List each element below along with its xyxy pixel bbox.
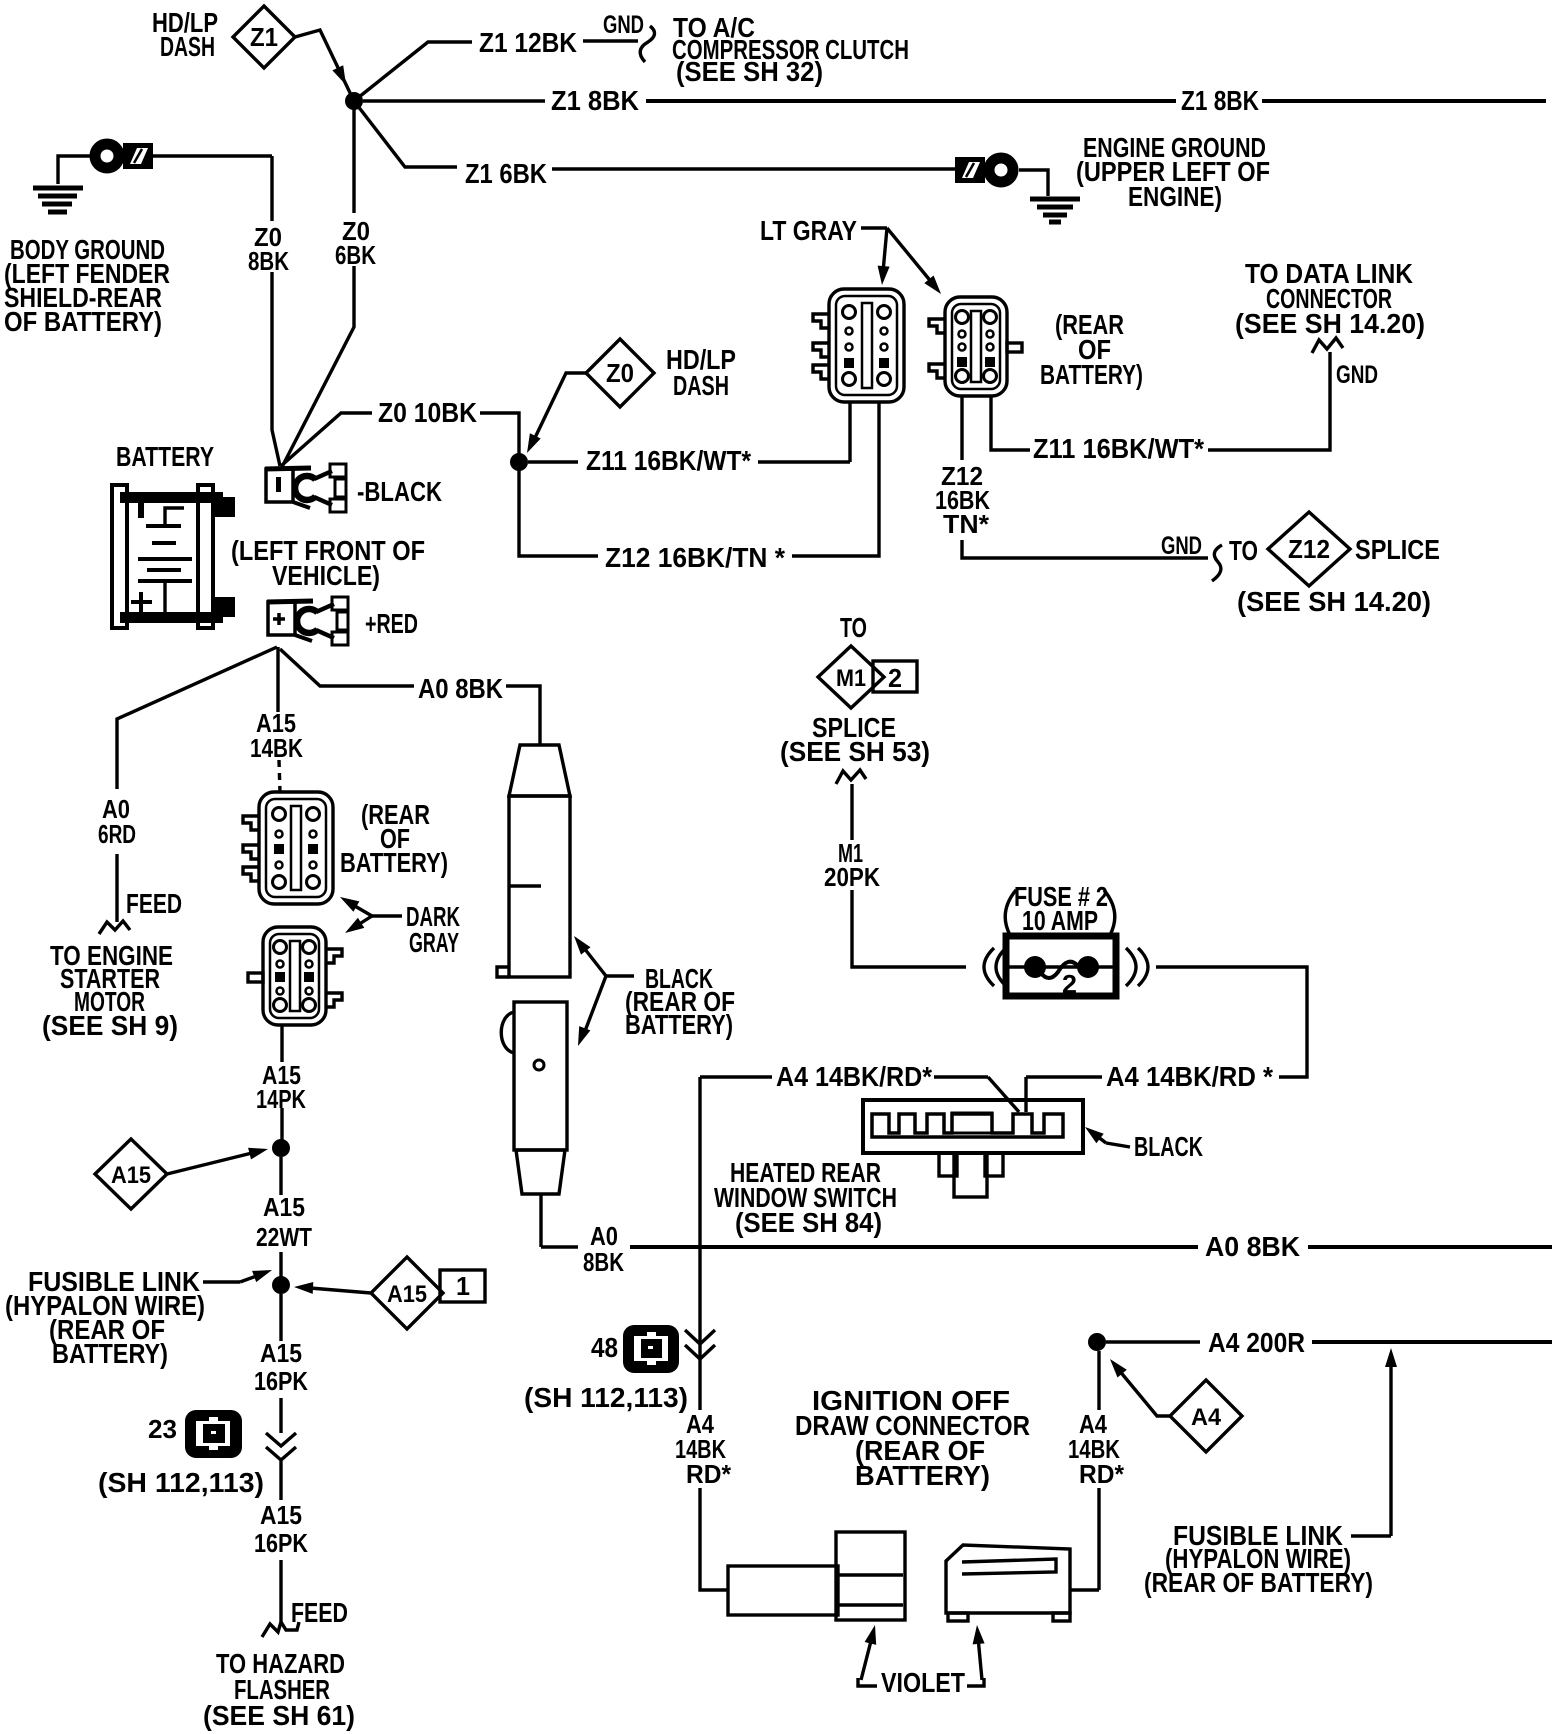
wire A0 8BK (long horizontal) (541, 1245, 1552, 1248)
wire fusible link riser (A4 200R) (1351, 1348, 1397, 1536)
wire A15 diamond arrow to node (167, 1148, 268, 1174)
svg-text:VIOLET: VIOLET (881, 1667, 965, 1698)
svg-text:BATTERY): BATTERY) (1040, 359, 1143, 390)
label DARK GRAY (406, 901, 460, 958)
svg-text:DASH: DASH (160, 31, 215, 62)
battery symbol (112, 485, 235, 628)
label BLACK (switch) with arrow (1085, 1127, 1203, 1162)
node junction Z1 (345, 92, 363, 110)
bracket squiggle (Z12 splice) (1212, 545, 1222, 581)
label BLACK (REAR OF BATTERY) with arrows (574, 936, 735, 1046)
wire Z1 6BK to engine ground (354, 101, 957, 169)
wire Z1 8BK (junction to right edge) (363, 99, 1546, 102)
svg-text:A4 14BK/RD *: A4 14BK/RD * (1106, 1061, 1273, 1092)
svg-text:14PK: 14PK (256, 1084, 306, 1114)
fusible link cartridge (lower, black) (501, 1002, 567, 1247)
svg-text:2: 2 (888, 663, 902, 693)
wire A15 14BK (+RED to connector C3) (278, 647, 280, 793)
label A4 14BK RD* (left stack) (675, 1409, 732, 1489)
wire ring terminal to body ground symbol (58, 156, 95, 184)
battery positive clamp (+RED) (267, 597, 348, 645)
grommet 48 (623, 1325, 679, 1373)
ignition off draw connector (violet female) (946, 1545, 1070, 1621)
svg-text:(SEE SH 84): (SEE SH 84) (735, 1207, 882, 1238)
label TO HAZARD FLASHER (SEE SH 61) (203, 1648, 355, 1731)
svg-text:(REAR OF BATTERY): (REAR OF BATTERY) (1144, 1567, 1373, 1598)
label TO A/C COMPRESSOR CLUTCH (SEE SH 32) (672, 12, 909, 87)
svg-text:Z1: Z1 (250, 22, 278, 52)
svg-text:Z12 16BK/TN *: Z12 16BK/TN * (605, 542, 785, 573)
wire fusible link pointer (203, 1270, 272, 1282)
svg-text:A4 14BK/RD*: A4 14BK/RD* (776, 1061, 932, 1092)
svg-text:Z1 8BK: Z1 8BK (1181, 85, 1259, 116)
svg-text:Z11 16BK/WT*: Z11 16BK/WT* (586, 445, 751, 476)
label FUSIBLE LINK (HYPALON WIRE) (REAR OF BATTERY) left (5, 1266, 205, 1369)
svg-text:2: 2 (1062, 969, 1077, 999)
node A4 junction (1088, 1333, 1106, 1351)
ground (body) (33, 188, 83, 212)
in-line connector chevrons (fuse left) (984, 948, 1006, 986)
wire A15 16PK (lower) (279, 1461, 282, 1622)
label A15 22WT (256, 1192, 312, 1252)
wire Z0 diamond arrow to node (527, 373, 586, 453)
svg-text:Z1 8BK: Z1 8BK (551, 85, 639, 116)
svg-text:8BK: 8BK (248, 246, 289, 276)
svg-text:16PK: 16PK (254, 1366, 308, 1396)
svg-text:TO: TO (1229, 535, 1258, 566)
label BODY GROUND (LEFT FENDER SHIELD-REAR OF BATTERY) (4, 234, 170, 337)
label (LEFT FRONT OF VEHICLE) (231, 535, 425, 591)
svg-text:A0 8BK: A0 8BK (1205, 1231, 1300, 1262)
wire A15 14PK (C4 to node) (280, 1025, 283, 1148)
svg-text:GND: GND (1336, 361, 1378, 389)
label (REAR OF BATTERY) middle (340, 799, 448, 878)
svg-text:6BK: 6BK (335, 240, 376, 270)
svg-text:DASH: DASH (673, 370, 729, 401)
svg-text:RD*: RD* (686, 1459, 732, 1489)
label HD/LP DASH (Z0) (666, 344, 736, 401)
svg-text:Z12: Z12 (1288, 534, 1330, 564)
wire A4 200R (to right edge) (1106, 1340, 1552, 1343)
label A15 14BK (250, 708, 303, 763)
label VIOLET with arrows (858, 1625, 985, 1698)
svg-text:GND: GND (1161, 532, 1202, 560)
wire M1 20PK to fuse 2 (852, 784, 966, 967)
wire DARK GRAY pointer arrows (340, 897, 402, 933)
svg-text:A4 200R: A4 200R (1208, 1327, 1305, 1358)
wire Z0 10BK (clamp to Z0 node) (281, 413, 519, 466)
svg-text:-BLACK: -BLACK (357, 476, 442, 507)
fusible link cartridge (upper, black) (497, 745, 570, 977)
label TO DATA LINK CONNECTOR (SEE SH 14.20) (1235, 258, 1425, 339)
label HD/LP DASH (152, 7, 218, 62)
wire Z11 16BK/WT* from C2 to data link connector (991, 352, 1330, 450)
svg-text:+RED: +RED (365, 608, 418, 639)
svg-text:(SEE SH 14.20): (SEE SH 14.20) (1235, 308, 1425, 339)
bulkhead pass-through chevrons (A15) (266, 1433, 296, 1460)
svg-text:M1: M1 (836, 665, 866, 692)
wire Z12 16BK/TN* from node to C1 pin (519, 403, 879, 556)
svg-text:48: 48 (591, 1332, 618, 1363)
splice symbol M1 > 2 (818, 646, 917, 708)
label Z12 16BK TN* (stacked) (935, 461, 990, 539)
grommet 23 (185, 1410, 242, 1458)
wire A15>1 arrow to node (294, 1282, 371, 1294)
splice symbol A4 (1170, 1380, 1242, 1452)
wire A0 8BK (+RED to fusible link) (280, 649, 540, 744)
svg-text:20PK: 20PK (824, 862, 880, 892)
label A15 16PK (lower) (254, 1500, 308, 1558)
svg-text:BATTERY): BATTERY) (625, 1009, 733, 1040)
label SPLICE (SEE SH 53) (780, 712, 930, 767)
svg-text:BATTERY): BATTERY) (340, 847, 448, 878)
heated rear window switch (863, 1100, 1083, 1197)
svg-text:VEHICLE): VEHICLE) (272, 560, 380, 591)
wire A4 14BK/RD* vertical (to ignition off draw connector) (700, 1077, 728, 1590)
wire A4 diamond arrow to node (1110, 1359, 1170, 1416)
label A0 8BK (stacked at left) (583, 1221, 624, 1277)
label IGNITION OFF DRAW CONNECTOR (REAR OF BATTERY) (795, 1385, 1030, 1491)
svg-text:Z11 16BK/WT*: Z11 16BK/WT* (1033, 433, 1204, 464)
svg-text:(SEE SH 53): (SEE SH 53) (780, 736, 930, 767)
connector C1 lt gray 8-pin (engine harness) (813, 289, 904, 402)
ring terminal (engine ground) (955, 157, 1013, 183)
feed bracket (M1) (836, 770, 866, 784)
svg-text:TO: TO (840, 612, 867, 643)
svg-text:BATTERY): BATTERY) (855, 1460, 990, 1491)
wire LT GRAY pointer arrows (861, 228, 941, 294)
wire ring terminal to engine ground symbol (1019, 170, 1048, 196)
svg-text:22WT: 22WT (256, 1222, 312, 1252)
connector C4 dark gray 8-pin (248, 927, 342, 1025)
wire connector to A4 200R node (1070, 1351, 1099, 1590)
wire A4 14BK/RD* (left branch to switch) (700, 1077, 1019, 1112)
svg-text:FEED: FEED (291, 1597, 348, 1628)
svg-text:Z1 6BK: Z1 6BK (465, 158, 547, 189)
ring terminal (body ground) (95, 143, 153, 169)
label A0 6RD (98, 794, 136, 849)
svg-text:14BK: 14BK (250, 733, 303, 763)
svg-text:Z0: Z0 (606, 358, 634, 388)
svg-text:FEED: FEED (126, 888, 182, 919)
label Z0 8BK (248, 222, 289, 276)
svg-text:A15: A15 (111, 1162, 151, 1189)
svg-text:10 AMP: 10 AMP (1022, 905, 1098, 936)
connector symbol Z0 (HD/LP dash) (586, 339, 654, 407)
label FUSIBLE LINK (HYPALON WIRE) (REAR OF BATTERY) right (1144, 1520, 1373, 1598)
feed hook (hazard flasher) (262, 1622, 299, 1637)
label (REAR OF BATTERY) upper (1040, 309, 1143, 390)
fuse F2 (10 amp) (1006, 936, 1116, 999)
wire A15 16PK (upper) (279, 1294, 282, 1433)
bulkhead pass-through chevrons (A4) (685, 1330, 715, 1359)
svg-text:A15: A15 (263, 1192, 305, 1222)
svg-text:Z1 12BK: Z1 12BK (479, 27, 577, 58)
svg-text:A15: A15 (260, 1500, 302, 1530)
wire fuse 2 to A4 14BK/RD* (1026, 967, 1307, 1112)
in-line connector chevrons (fuse right) (1126, 948, 1148, 986)
svg-text:A0 8BK: A0 8BK (418, 673, 503, 704)
svg-text:BLACK: BLACK (1134, 1131, 1203, 1162)
svg-text:(SH 112,113): (SH 112,113) (524, 1382, 688, 1413)
splice symbol Z12 (1268, 512, 1350, 586)
node Z11/Z12 junction (510, 453, 528, 471)
svg-text:ENGINE): ENGINE) (1128, 181, 1222, 212)
splice symbol A15 (95, 1139, 167, 1209)
battery negative clamp (-BLACK) (265, 464, 346, 512)
wire Z12 16BK TN* from C2 to Z12 splice (962, 397, 1208, 558)
svg-text:23: 23 (148, 1414, 177, 1444)
svg-text:TN*: TN* (943, 509, 990, 539)
wire A0 6RD to engine starter motor (99, 647, 277, 934)
svg-text:16PK: 16PK (254, 1528, 308, 1558)
svg-text:8BK: 8BK (583, 1247, 624, 1277)
svg-text:(SEE SH 9): (SEE SH 9) (42, 1010, 178, 1041)
label HEATED REAR WINDOW SWITCH (SEE SH 84) (714, 1157, 897, 1238)
svg-text:(SEE SH 61): (SEE SH 61) (203, 1700, 355, 1731)
svg-text:(SH 112,113): (SH 112,113) (98, 1467, 264, 1498)
svg-text:Z0 10BK: Z0 10BK (378, 397, 477, 428)
svg-text:(SEE SH 32): (SEE SH 32) (676, 56, 823, 87)
svg-text:6RD: 6RD (98, 819, 136, 849)
svg-text:RD*: RD* (1079, 1459, 1125, 1489)
wire Z0 8BK (body ground to battery negative clamp) (152, 156, 280, 466)
connector symbol Z1 (HD/LP dash) (233, 6, 295, 68)
svg-text:A15: A15 (387, 1281, 427, 1308)
node A15 junction 2 (fusible link) (272, 1276, 290, 1294)
wire A15 22WT (279, 1157, 282, 1277)
svg-text:LT GRAY: LT GRAY (760, 215, 857, 246)
label FUSE # 2 (10 AMP) (1005, 881, 1115, 936)
wire Z11 16BK/WT* from node to C1 (528, 403, 850, 462)
label M1 20PK (824, 838, 880, 892)
node A15 junction 1 (272, 1139, 290, 1157)
wire Z0 6BK (junction to battery negative clamp) (282, 108, 354, 467)
label ENGINE GROUND (UPPER LEFT OF ENGINE) (1076, 132, 1270, 212)
label A15 14PK (256, 1060, 306, 1114)
label TO ENGINE STARTER MOTOR (SEE SH 9) (42, 940, 178, 1041)
wire Z1 diamond to junction (295, 30, 352, 97)
label A4 14BK RD* (right stack) (1068, 1409, 1125, 1489)
feed bracket (data link) (1312, 338, 1343, 353)
svg-text:BATTERY): BATTERY) (52, 1338, 168, 1369)
svg-text:SPLICE: SPLICE (1355, 534, 1440, 565)
svg-text:1: 1 (456, 1271, 470, 1301)
ignition off draw connector (violet male) (728, 1532, 905, 1620)
connector C3 dark gray 8-pin (rear of battery) (243, 792, 333, 904)
label Z0 6BK (335, 216, 376, 270)
svg-text:OF BATTERY): OF BATTERY) (4, 306, 162, 337)
svg-text:GND: GND (603, 11, 644, 39)
connector C2 lt gray 8-pin (rear of battery) (929, 297, 1022, 396)
ground (engine) (1030, 199, 1080, 222)
svg-text:GRAY: GRAY (409, 927, 459, 958)
label A15 16PK (upper) (254, 1338, 308, 1396)
wire Z1 12BK to A/C compressor clutch (354, 26, 655, 101)
svg-text:BATTERY: BATTERY (116, 441, 214, 472)
splice symbol A15 > 1 (371, 1257, 485, 1329)
svg-text:(SEE SH 14.20): (SEE SH 14.20) (1237, 586, 1431, 617)
svg-text:A15: A15 (260, 1338, 302, 1368)
svg-text:A4: A4 (1191, 1404, 1222, 1431)
